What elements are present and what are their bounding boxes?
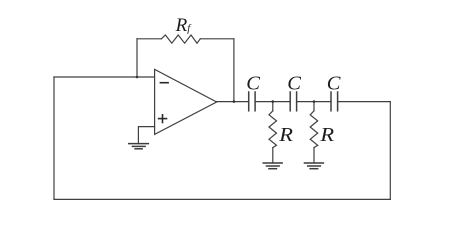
op-amp plus sign [158, 114, 168, 123]
resistor R1 bottom lead [272, 148, 274, 163]
ground: op-amp non-inverting input [128, 144, 149, 149]
wire: C1 to C2 [255, 101, 290, 103]
resistor R1 top lead [272, 102, 274, 111]
svg-text:R: R [319, 123, 334, 146]
wire: feedback right vertical [233, 39, 235, 102]
wire: right vertical [389, 102, 391, 200]
op-amp U1 [155, 69, 217, 134]
junction node: R2 top [313, 100, 316, 103]
capacitor C1 [249, 92, 255, 111]
capacitor C3 [331, 92, 338, 111]
wire: C3 to right vertical [338, 101, 391, 103]
wire: inverting input horizontal [54, 76, 155, 78]
ground: resistor R1 [263, 163, 283, 169]
svg-text:R: R [278, 123, 293, 146]
resistor R2 bottom lead [313, 148, 315, 163]
wire: feedback left vertical [136, 39, 138, 77]
resistor R2 top lead [313, 102, 315, 111]
ground: resistor R2 [304, 163, 324, 169]
svg-text:C: C [327, 73, 341, 95]
op-amp minus sign [160, 82, 169, 84]
junction node: R1 top [272, 100, 275, 103]
wire: feedback top right [200, 38, 234, 40]
wire: bottom horizontal [54, 198, 390, 200]
svg-text:C: C [287, 73, 301, 95]
resistor R1 [269, 111, 277, 148]
resistor Rf [161, 35, 200, 43]
svg-text:Rf: Rf [175, 15, 193, 36]
capacitor C2 [290, 92, 296, 111]
wire: non-inverting input [138, 127, 154, 144]
wire: feedback top left [137, 38, 161, 40]
junction node: feedback to input [136, 76, 139, 79]
resistor R2 [310, 111, 318, 148]
wire: C2 to C3 [297, 101, 331, 103]
wire: op-amp output [217, 101, 249, 103]
wire: left vertical [53, 77, 55, 199]
junction node: feedback to output [233, 100, 236, 103]
svg-text:C: C [246, 73, 260, 95]
